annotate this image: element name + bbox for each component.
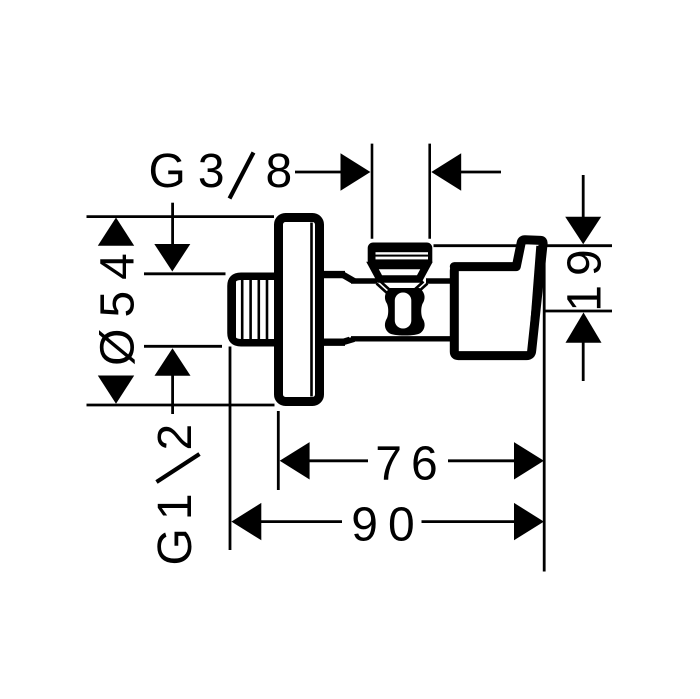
dimension 19 bottom extension line bbox=[543, 310, 612, 313]
svg-text:G3: G3 bbox=[149, 145, 237, 198]
G1/2 arrow pointing down bbox=[154, 244, 190, 272]
outlet body with lever hook bbox=[454, 240, 543, 356]
76 arrow pointing left bbox=[280, 442, 310, 479]
G1/2 arrow pointing up bbox=[155, 348, 191, 376]
valve stem hourglass bbox=[385, 288, 425, 336]
extension line thread top (G1/2) bbox=[144, 272, 226, 275]
G3/8 arrow pointing right bbox=[341, 153, 371, 190]
rosette wall flange Ø54 bbox=[279, 218, 320, 402]
compression cap G3/8 bbox=[368, 243, 433, 267]
svg-text:8: 8 bbox=[266, 145, 293, 198]
extension line top of rosette (Ø54) bbox=[87, 215, 275, 218]
G3/8 dimension tail right bbox=[460, 171, 501, 174]
G1/2 dimension tail top bbox=[171, 203, 174, 245]
90 dimension tail right bbox=[422, 520, 516, 523]
76 dimension tail right bbox=[448, 459, 515, 462]
19 dimension tail bottom bbox=[582, 342, 585, 382]
19 arrow pointing down bbox=[565, 217, 601, 245]
dimension 19 top extension line bbox=[434, 244, 613, 247]
svg-text:76: 76 bbox=[375, 438, 446, 491]
G3/8 dimension extension line right bbox=[428, 144, 431, 239]
svg-text:G1: G1 bbox=[149, 485, 202, 565]
90 arrow pointing right bbox=[514, 503, 544, 540]
G3/8 arrow pointing left bbox=[431, 153, 461, 190]
G3/8 dimension tail left bbox=[295, 171, 342, 174]
extension line below thread for 90 bbox=[229, 347, 232, 551]
hatch notch left of stem bbox=[377, 282, 392, 294]
90 arrow pointing left bbox=[231, 503, 261, 540]
valve body tube to outlet bbox=[349, 281, 455, 339]
extension line thread bottom (G1/2) bbox=[144, 345, 222, 348]
label 19 rotated bbox=[559, 240, 612, 311]
inlet thread G1/2 bbox=[231, 276, 279, 343]
svg-text:90: 90 bbox=[351, 499, 424, 552]
extension line below rosette for 76 bbox=[277, 411, 280, 490]
label 76 bbox=[375, 438, 446, 491]
label G3/8 bbox=[149, 145, 293, 199]
G3/8 dimension extension line left bbox=[371, 144, 374, 239]
G1/2 dimension tail bottom bbox=[171, 375, 174, 415]
svg-text:2: 2 bbox=[149, 424, 202, 451]
19 arrow pointing up bbox=[566, 313, 602, 343]
19 dimension tail top bbox=[582, 175, 585, 218]
Ø54 arrow up bbox=[98, 218, 134, 246]
svg-text:Ø54: Ø54 bbox=[92, 242, 145, 366]
hatch notch right of stem bbox=[413, 282, 428, 294]
extension line bottom of rosette (Ø54) bbox=[87, 404, 275, 407]
extension line right of fixture for 76 and 90 bbox=[543, 246, 546, 572]
76 dimension tail left bbox=[309, 459, 369, 462]
valve body section behind rosette bbox=[316, 275, 354, 343]
label G1/2 rotated bbox=[149, 424, 202, 566]
label Ø54 rotated bbox=[92, 242, 145, 366]
90 dimension tail left bbox=[260, 520, 342, 523]
valve bonnet trapezoid bbox=[373, 266, 427, 280]
label 90 bbox=[351, 499, 424, 552]
76 arrow pointing right bbox=[514, 442, 544, 479]
Ø54 arrow down bbox=[98, 376, 134, 404]
svg-text:19: 19 bbox=[559, 240, 612, 311]
